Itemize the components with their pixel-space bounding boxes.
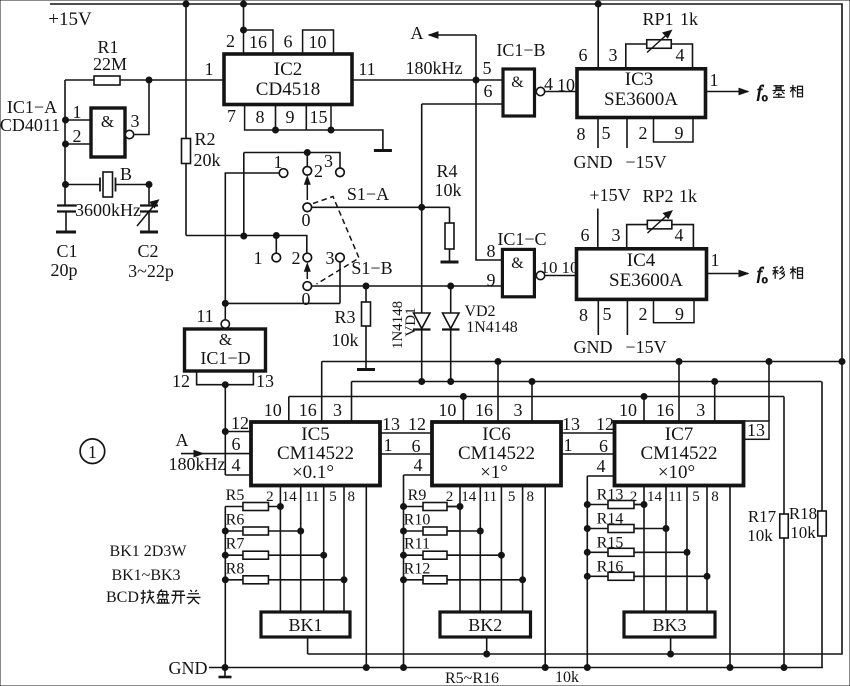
svg-text:S1−B: S1−B: [351, 258, 392, 278]
svg-text:6: 6: [484, 81, 493, 101]
wire S1-A wiper output: [312, 206, 450, 208]
svg-text:6: 6: [581, 225, 590, 245]
svg-text:IC2: IC2: [274, 59, 303, 80]
resistor R4 10k: [441, 207, 459, 262]
wire IC5 pin13 to IC6 pin12: [380, 432, 432, 434]
switch BK1 BCD dial: [261, 612, 350, 637]
svg-text:10k: 10k: [435, 180, 462, 200]
svg-text:S1−A: S1−A: [347, 184, 389, 204]
junction pin1: [63, 117, 69, 123]
junction R7 left: [222, 552, 228, 558]
wire IC6 pin 2 vertical: [459, 486, 461, 612]
wire IC4 output arrow: [707, 273, 749, 275]
wire rail to IC3 pin6: [597, 4, 599, 69]
wire IC1-A input left vertical: [64, 80, 66, 206]
svg-text:10: 10: [438, 400, 456, 420]
wire S1-A contact2 up: [306, 153, 308, 167]
svg-text:180kHz: 180kHz: [406, 58, 463, 78]
svg-text:IC1−B: IC1−B: [496, 40, 545, 60]
svg-text:9: 9: [487, 270, 496, 290]
svg-text:CM14522: CM14522: [640, 443, 717, 464]
pin 9 box IC4: [654, 299, 695, 322]
IC U IC6 CM14522: [432, 422, 561, 486]
ground stake at GND bus left: [224, 668, 226, 678]
svg-text:R17: R17: [748, 507, 777, 526]
resistor R15 10k: [587, 548, 644, 556]
svg-text:4: 4: [414, 455, 423, 475]
wire S1-A contact1 down to IC1-D pin11: [225, 173, 279, 303]
resistor R8 10k: [225, 576, 344, 584]
junction VD1 on bus B: [419, 379, 425, 385]
svg-text:12: 12: [596, 414, 614, 434]
wire IC6 pin3 riser: [531, 382, 533, 423]
svg-text:5: 5: [602, 123, 611, 143]
svg-text:1k: 1k: [679, 186, 697, 206]
svg-text:2: 2: [314, 161, 323, 181]
svg-text:SE3600A: SE3600A: [609, 270, 683, 291]
resistor R11 10k: [404, 551, 461, 559]
svg-text:R9: R9: [408, 487, 427, 504]
svg-text:IC5: IC5: [301, 424, 330, 445]
wire divider pin9/15: [305, 105, 307, 131]
wire IC3 pin2 -15V stub: [626, 118, 628, 149]
junction R11 right pin: [498, 552, 504, 558]
node A arrow into IC5 pin6: [181, 453, 251, 455]
svg-text:−15V: −15V: [625, 152, 666, 172]
junction bus A IC7 pin16: [676, 359, 682, 365]
wire IC6 pin10 riser: [462, 397, 464, 423]
svg-text:9: 9: [675, 304, 684, 324]
gate IC1-B CD4011 NAND: [503, 69, 545, 116]
ground under IC2: [374, 149, 392, 152]
node A arrow top: [429, 34, 476, 36]
wire IC1-D inputs down to IC5: [224, 385, 226, 475]
svg-text:CD4011: CD4011: [0, 115, 60, 135]
svg-text:2: 2: [639, 304, 648, 324]
svg-text:+15V: +15V: [589, 185, 630, 205]
gate IC1-C CD4011 NAND: [502, 249, 544, 296]
wire R9-R12 common down to GND: [403, 475, 405, 668]
wire junction to IC1-D bubble: [224, 303, 226, 320]
svg-text:11: 11: [483, 489, 497, 505]
svg-text:13: 13: [747, 420, 765, 440]
svg-text:20p: 20p: [51, 260, 78, 280]
junction BK3 on common bus: [668, 651, 674, 657]
svg-text:10: 10: [557, 75, 575, 95]
svg-text:R14: R14: [597, 511, 624, 528]
capacitor C1 20p: [56, 206, 76, 233]
wire IC6 pin4: [404, 474, 433, 476]
resistor R10 10k: [404, 527, 461, 535]
svg-text:IC3: IC3: [625, 69, 654, 90]
junction bus B IC6 pin3: [529, 379, 535, 385]
wire IC5 pin 8 vertical: [365, 486, 367, 668]
svg-text:6: 6: [599, 436, 608, 456]
wire contact bus down to R2 line: [243, 153, 245, 237]
svg-text:6: 6: [412, 436, 421, 456]
svg-text:R18: R18: [789, 504, 817, 523]
wire IC7 pin3 riser: [714, 382, 716, 423]
potentiometer RP1 1k: [626, 30, 693, 69]
svg-text:15: 15: [310, 107, 328, 127]
svg-text:13: 13: [562, 414, 580, 434]
svg-text:4: 4: [232, 455, 241, 475]
wire IC5 pin 5 vertical: [343, 486, 345, 612]
wire IC5 pin10 riser: [288, 397, 290, 423]
svg-text:12: 12: [172, 371, 190, 391]
svg-text:A: A: [176, 430, 189, 450]
junction GND R13 common: [584, 665, 590, 671]
wire IC5 pin4: [225, 474, 251, 476]
svg-text:6: 6: [284, 32, 293, 52]
wire IC2 pin11 180kHz to IC1-B pin5: [352, 79, 503, 81]
svg-text:R6: R6: [226, 512, 245, 529]
resistor R12 10k: [404, 576, 461, 584]
wire BK2 common down: [486, 637, 488, 654]
svg-text:12: 12: [408, 414, 426, 434]
wire IC4 pin2 -15V stub: [626, 299, 628, 335]
svg-text:C2: C2: [137, 241, 158, 261]
wire R16 right lead: [634, 575, 707, 577]
svg-text:10k: 10k: [555, 669, 579, 686]
wire IC1-A output pin 3 up to R1 line: [134, 80, 149, 135]
wire R15 right lead: [634, 551, 687, 553]
junction R9 right pin: [457, 504, 463, 510]
wire IC1-A output down to C2: [148, 185, 150, 206]
junction VD2 top: [448, 283, 454, 289]
svg-text:3600kHz: 3600kHz: [75, 200, 141, 220]
svg-text:R11: R11: [404, 536, 430, 553]
svg-text:R10: R10: [404, 512, 431, 529]
wire +15V stub to IC4 pin6: [597, 209, 599, 249]
svg-text:14: 14: [461, 489, 477, 505]
junction R8 left: [222, 577, 228, 583]
junction BK2 on common bus: [484, 651, 490, 657]
svg-text:1: 1: [88, 442, 97, 462]
svg-text:R2: R2: [194, 129, 215, 149]
resistor R3 10k: [357, 286, 375, 370]
svg-text:3: 3: [612, 225, 621, 245]
svg-text:3: 3: [326, 248, 335, 268]
wire R5-R8 common to GND: [224, 507, 226, 668]
diode VD1 1N4148: [413, 104, 431, 382]
svg-text:CM14522: CM14522: [458, 443, 535, 464]
svg-text:GND: GND: [574, 337, 613, 357]
svg-text:5: 5: [508, 489, 516, 505]
svg-text:2: 2: [226, 31, 235, 51]
junction R10 left: [401, 528, 407, 534]
junction GND IC5 pin8: [363, 665, 369, 671]
pin 16 box IC2: [244, 30, 274, 54]
wire IC7 pin 8 vertical: [729, 486, 731, 668]
junction R10 right pin: [477, 528, 483, 534]
wire IC1-B output to IC3 pin10: [545, 91, 577, 93]
svg-text:IC1−D: IC1−D: [200, 348, 250, 368]
wire IC7 pin16 riser: [678, 362, 680, 423]
svg-text:CD4518: CD4518: [256, 79, 320, 100]
svg-text:9: 9: [675, 123, 684, 143]
wire pin 1 into IC1-A: [65, 119, 91, 121]
svg-text:×10°: ×10°: [658, 462, 695, 483]
junction R16 left: [584, 573, 590, 579]
IC U IC2 CD4518: [224, 54, 352, 105]
svg-text:8: 8: [711, 489, 719, 505]
svg-text:11: 11: [358, 59, 375, 79]
junction R12 left: [401, 577, 407, 583]
resistor R17 10k: [780, 397, 789, 668]
junction R15 right pin: [684, 549, 690, 555]
IC U IC7 CM14522: [615, 422, 744, 486]
wire pin3 bus line B: [352, 381, 822, 383]
junction under pin 15 box: [328, 127, 334, 133]
wire IC7 pin 2 vertical: [643, 486, 645, 612]
wire IC6 pin 8 vertical: [544, 486, 546, 668]
wire IC7 pin 11 vertical: [686, 486, 688, 612]
svg-text:R3: R3: [334, 307, 355, 327]
svg-text:11: 11: [305, 489, 319, 505]
svg-text:1: 1: [254, 248, 263, 268]
svg-text:BK1~BK3: BK1~BK3: [111, 567, 180, 584]
svg-text:5: 5: [692, 489, 700, 505]
svg-text:4: 4: [676, 45, 685, 65]
svg-text:3: 3: [131, 111, 140, 131]
svg-text:7: 7: [227, 106, 236, 126]
switch BK2 BCD dial: [440, 612, 531, 637]
junction R5 right pin: [277, 504, 283, 510]
switch S1-A: [279, 167, 344, 212]
junction R7 right pin: [321, 552, 327, 558]
svg-text:1: 1: [73, 102, 82, 122]
svg-text:0: 0: [302, 289, 311, 309]
svg-text:RP2: RP2: [642, 186, 673, 206]
wire 180kHz down to IC1-C pin8: [476, 80, 502, 260]
wire R10 right lead: [447, 530, 480, 532]
svg-text:R12: R12: [404, 560, 431, 577]
junction GND at resistor common R5-R8: [222, 665, 228, 671]
node circled 1 figure mark: [80, 439, 105, 464]
pin 10 box IC2: [303, 30, 334, 54]
junction IC1-D inputs: [222, 382, 228, 388]
wire IC5 pin3 riser: [351, 382, 353, 423]
svg-text:&: &: [511, 74, 524, 91]
wire IC2 unused pins to ground: [331, 130, 383, 150]
svg-text:10: 10: [619, 400, 637, 420]
junction R6 left: [222, 528, 228, 534]
wire pin10 bus line C: [289, 396, 784, 398]
wire IC3 output arrow: [706, 91, 749, 93]
junction crystal left: [63, 182, 69, 188]
junction right border with +15V bus A: [839, 359, 845, 365]
crystal B 3600kHz: [65, 172, 149, 197]
junction contact2 on bus: [304, 150, 310, 156]
svg-text:GND: GND: [574, 152, 613, 172]
svg-text:1: 1: [274, 152, 283, 172]
switch S1-B: [272, 253, 344, 290]
diode VD2 1N4148: [442, 286, 460, 382]
svg-text:BK2: BK2: [468, 615, 502, 635]
wire divider pin8/9: [275, 105, 277, 131]
svg-text:8: 8: [348, 489, 356, 505]
svg-text:1N4148: 1N4148: [466, 319, 518, 336]
wire S1-B wiper to IC1-C pin9: [312, 285, 503, 287]
svg-text:10: 10: [309, 32, 327, 52]
wire IC6 pin16 riser: [497, 362, 499, 423]
node fo base phase CJK 基相: [773, 85, 786, 97]
svg-text:R15: R15: [597, 534, 624, 551]
junction bus C IC7 pin10: [641, 394, 647, 400]
svg-text:IC1−C: IC1−C: [497, 229, 546, 249]
svg-text:1k: 1k: [680, 9, 698, 29]
op-amp U none; gate IC1-A CD4011 NAND: [91, 108, 134, 157]
IC U IC5 CM14522: [251, 422, 380, 486]
svg-text:R7: R7: [226, 536, 245, 553]
wire S1-B contact3 down: [339, 262, 341, 304]
wire IC5 pin 2 vertical: [279, 486, 281, 612]
svg-text:1: 1: [711, 250, 720, 270]
wire S1-B contact1 up to bus: [275, 236, 277, 254]
svg-text:2: 2: [73, 126, 82, 146]
svg-text:3: 3: [333, 400, 342, 420]
wire R11 right lead: [447, 554, 501, 556]
wire BK3 common down: [670, 637, 672, 654]
svg-text:1: 1: [384, 435, 393, 455]
resistor R6 10k: [225, 527, 300, 535]
svg-text:2: 2: [292, 248, 301, 268]
svg-text:180kHz: 180kHz: [169, 454, 226, 474]
wire IC6 pin13 to IC7 pin12: [560, 432, 615, 434]
svg-text:CM14522: CM14522: [277, 443, 354, 464]
junction bus A IC6 pin16: [495, 359, 501, 365]
svg-text:6: 6: [232, 434, 241, 454]
svg-text:&: &: [101, 112, 114, 131]
junction R13 left: [584, 502, 590, 508]
svg-text:8: 8: [579, 305, 588, 325]
svg-text:GND: GND: [169, 658, 208, 678]
svg-text:RP1: RP1: [642, 9, 673, 29]
capacitor C2 variable 3~22p: [137, 200, 159, 232]
IC U IC3 SE3600A: [577, 69, 706, 118]
wire IC3 pin5 GND stub: [597, 118, 599, 149]
wire IC5 pin1 to IC6 pin6: [380, 453, 432, 455]
wire IC7 pin13 to +15V bus: [768, 362, 770, 422]
svg-text:4: 4: [544, 74, 553, 94]
resistor R9 10k: [404, 503, 461, 511]
svg-text:22M: 22M: [93, 54, 127, 74]
wire R13-R16 common down to GND: [586, 476, 588, 668]
svg-text:8: 8: [526, 489, 534, 505]
svg-text:R13: R13: [597, 487, 624, 504]
junction bus B IC7 pin3: [712, 379, 718, 385]
svg-text:2: 2: [639, 123, 648, 143]
junction GND R9 common: [401, 665, 407, 671]
junction rail to IC2 pin16: [241, 1, 247, 7]
svg-text:11: 11: [196, 306, 213, 326]
svg-text:0: 0: [302, 210, 311, 230]
svg-text:8: 8: [487, 241, 496, 261]
IC U IC4 SE3600A: [577, 249, 707, 300]
junction rail to IC3 pin6: [595, 1, 601, 7]
svg-text:R4: R4: [436, 161, 457, 181]
svg-text:5: 5: [483, 58, 492, 78]
junction R11 left: [401, 552, 407, 558]
resistor R13 10k: [587, 501, 644, 509]
wire IC5 pin 11 vertical: [323, 486, 325, 612]
svg-text:16: 16: [249, 32, 267, 52]
svg-text:BK1 2D3W: BK1 2D3W: [110, 543, 188, 560]
svg-text:5: 5: [603, 304, 612, 324]
svg-text:×1°: ×1°: [480, 462, 508, 483]
svg-text:10: 10: [264, 400, 282, 420]
wire IC6 pin 14 vertical: [479, 486, 481, 612]
wire IC7 pin4: [587, 475, 614, 477]
pin 13 box IC7: [744, 421, 769, 439]
junction R1 line with IC1-A output: [146, 77, 152, 83]
svg-text:B: B: [120, 164, 132, 184]
junction R9 left: [401, 504, 407, 510]
junction bus A IC7 pin13: [766, 359, 772, 365]
junction R15 left: [584, 549, 590, 555]
svg-text:6: 6: [579, 45, 588, 65]
wire IC1-D pins 12 13 bracket: [197, 371, 254, 385]
junction 180kHz with A branch: [473, 77, 479, 83]
wire IC5 pin16 riser: [321, 362, 323, 423]
junction bus C IC6 pin10: [460, 394, 466, 400]
wire IC6 pin1 to IC7 pin6: [560, 453, 615, 455]
svg-text:&: &: [511, 255, 524, 272]
svg-text:R5~R16: R5~R16: [445, 670, 499, 686]
svg-text:8: 8: [256, 107, 265, 127]
wire R2 bottom to S1-B contact2: [186, 236, 307, 254]
junction under pin 8 box: [273, 127, 279, 133]
pin 8 9 15 box IC2: [245, 105, 331, 131]
junction rail to R2: [183, 1, 189, 7]
svg-text:3: 3: [609, 45, 618, 65]
svg-text:10k: 10k: [747, 526, 773, 545]
wire BK1 common down: [307, 637, 309, 654]
wire R12 right lead: [447, 579, 523, 581]
junction R14 left: [584, 526, 590, 532]
wire IC6 pin 11 vertical: [500, 486, 502, 612]
svg-text:VD2: VD2: [464, 303, 495, 320]
svg-text:16: 16: [299, 400, 317, 420]
svg-text:20k: 20k: [194, 150, 221, 170]
junction GND IC7 pin8: [727, 665, 733, 671]
mechanical link dashes S1: [313, 197, 359, 285]
svg-text:C1: C1: [56, 241, 77, 261]
junction R3 top: [363, 283, 369, 289]
wire IC6 pin 5 vertical: [522, 486, 524, 612]
svg-text:SE3600A: SE3600A: [604, 89, 678, 110]
resistor R7 10k: [225, 551, 323, 559]
svg-text:BCD: BCD: [106, 589, 139, 606]
junction R14 right pin: [663, 526, 669, 532]
svg-text:IC6: IC6: [482, 424, 511, 445]
svg-text:A: A: [411, 23, 424, 43]
switch BK3 BCD dial: [624, 612, 715, 637]
svg-text:4: 4: [597, 456, 606, 476]
junction GND R17: [781, 665, 787, 671]
junction R12 right pin: [520, 577, 526, 583]
svg-text:3: 3: [324, 151, 333, 171]
junction R13 right pin: [641, 502, 647, 508]
junction contact1 on R2 line: [273, 233, 279, 239]
junction IC1-D pin11: [222, 300, 228, 306]
svg-text:14: 14: [282, 489, 298, 505]
svg-text:1N4148: 1N4148: [390, 301, 406, 349]
svg-text:16: 16: [475, 400, 493, 420]
svg-text:10k: 10k: [332, 330, 359, 350]
svg-text:1: 1: [564, 435, 573, 455]
